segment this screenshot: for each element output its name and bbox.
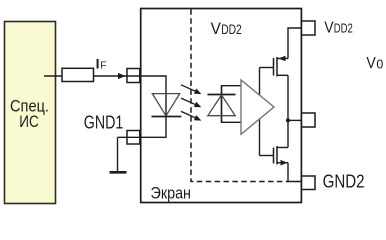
svg-text:DD2: DD2 — [221, 22, 242, 37]
svg-text:V: V — [324, 20, 334, 37]
svg-text:F: F — [100, 61, 106, 72]
svg-text:ИС: ИС — [19, 112, 39, 131]
svg-text:I: I — [96, 56, 100, 72]
svg-text:GND2: GND2 — [323, 172, 365, 192]
svg-text:0: 0 — [376, 57, 383, 71]
svg-text:GND1: GND1 — [84, 113, 124, 133]
svg-text:V: V — [366, 55, 376, 72]
svg-text:V: V — [211, 19, 222, 38]
svg-text:DD2: DD2 — [334, 22, 353, 36]
svg-text:Экран: Экран — [151, 184, 192, 203]
